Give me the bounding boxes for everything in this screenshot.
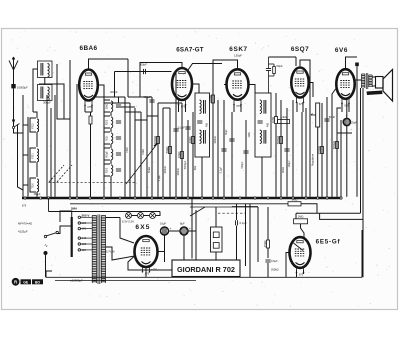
svg-text:6SA7-GT: 6SA7-GT (176, 47, 204, 54)
wire left bend (46, 271, 52, 277)
wire rail (305, 108, 307, 197)
wire 6v6 grid link (332, 88, 336, 103)
svg-text:125: 125 (82, 242, 87, 246)
svg-text:0,5µF: 0,5µF (271, 259, 278, 263)
svg-text:F515: F515 (33, 123, 35, 129)
svg-text:50kΩ: 50kΩ (148, 167, 151, 173)
pilot lamp LP1 (126, 213, 132, 219)
wire nameplate drop (191, 198, 193, 259)
svg-text:5000µF: 5000µF (184, 160, 187, 169)
wire 100pF line (115, 71, 172, 73)
wire top h2 (128, 96, 152, 98)
wire cathode to cap (346, 99, 348, 119)
svg-text:1MΩ: 1MΩ (298, 215, 304, 219)
wire V3 grid cap (213, 60, 238, 93)
resistor R osc (153, 135, 160, 144)
wire heaters V4 (296, 102, 298, 112)
power transformer T4 secondary (101, 216, 105, 284)
svg-text:50kΩ: 50kΩ (165, 146, 169, 154)
svg-text:675: 675 (87, 105, 92, 109)
subline B+ (70, 203, 288, 205)
wire 01 line (236, 204, 238, 220)
resistor R 1M eye (288, 198, 301, 206)
wire bottom heater rail (128, 256, 196, 270)
resistor R if (177, 151, 184, 159)
wire jog e (163, 107, 170, 109)
output transformer T3 primary (362, 74, 365, 88)
wire OT to speaker (372, 76, 376, 78)
wire rail (22, 95, 24, 197)
box pickup (211, 227, 223, 252)
svg-text:675: 675 (236, 104, 241, 108)
svg-text:∿: ∿ (44, 243, 48, 248)
voltage selector bar (71, 217, 73, 257)
svg-text:500pF: 500pF (241, 161, 244, 169)
wire rail (275, 93, 277, 117)
selector tap 110 (78, 249, 80, 251)
avc dashed line (218, 212, 246, 214)
tube V2 6SA7 (172, 68, 192, 109)
capacitor C2 100pF (144, 69, 146, 74)
selector tap 220 (78, 222, 80, 224)
antenna coil L2 in can (38, 85, 53, 101)
wire heaters V2 (178, 104, 180, 112)
svg-text:6SQ7: 6SQ7 (291, 46, 309, 53)
wire junction at L3 top (33, 112, 37, 118)
junction on bus x40.5 (39, 197, 41, 199)
svg-text:10kΩ: 10kΩ (177, 151, 181, 159)
electrolytic C filt2 8µF (180, 222, 191, 235)
junction on bus x70 (69, 197, 71, 199)
junction on bus x104 (103, 197, 105, 199)
maker logo wordmark (21, 279, 32, 284)
wire coil LM1 link (110, 112, 112, 116)
wire screen feed (39, 84, 64, 119)
wire rail (46, 95, 48, 197)
svg-text:160: 160 (82, 227, 87, 231)
wire right frame vert2 (362, 88, 364, 277)
svg-text:130pF: 130pF (234, 54, 242, 58)
tube V1 6BA6 (79, 70, 98, 110)
tube V4 6SQ7 (291, 68, 308, 107)
wire V2 plate (192, 84, 199, 93)
ground bus heavy line (22, 197, 342, 200)
wire jog b (116, 106, 135, 108)
svg-text:50kΩ: 50kΩ (107, 104, 109, 110)
band coil L4 with switch (30, 148, 39, 162)
svg-text:BO: BO (35, 280, 40, 284)
capacitor C mix (173, 126, 185, 132)
wire T1 bottom (201, 157, 203, 197)
svg-text:R: R (14, 280, 17, 285)
junction on bus x163 (162, 197, 164, 199)
svg-text:100kΩ: 100kΩ (214, 136, 217, 143)
wire frame step (320, 213, 363, 219)
electrolytic C cath 25µF (343, 114, 357, 125)
wire rail x246 (245, 120, 247, 197)
antenna coil L1 in can (38, 61, 53, 78)
wire mains to selector (57, 226, 71, 234)
wire rail x77 (76, 84, 78, 197)
wire rail (140, 112, 142, 197)
wire rail (187, 120, 189, 197)
wire rail (326, 97, 328, 197)
junction on bus x317.7 (317, 197, 319, 199)
wire rail (134, 108, 136, 197)
wire mid vert2 (257, 207, 259, 262)
bottom rail 2 (55, 280, 196, 282)
bottom rail 1 (46, 276, 362, 278)
svg-text:1MΩ: 1MΩ (292, 198, 298, 202)
wire rail (336, 108, 338, 197)
resistor R2 1M eye (294, 215, 308, 224)
wire V5 plate to OT (355, 79, 362, 81)
wire eye left (286, 253, 290, 278)
wire rail (162, 108, 164, 197)
svg-text:100kΩ: 100kΩ (164, 166, 167, 173)
wire heater leads (84, 105, 86, 112)
oscillator coil LM3 (104, 132, 113, 144)
svg-text:T516: T516 (33, 183, 35, 189)
capacitor C osc top (143, 95, 155, 102)
svg-text:6SK7: 6SK7 (229, 46, 247, 53)
wire subline3 (190, 206, 258, 208)
IF transformer T2 can (255, 93, 271, 157)
svg-text:F202: F202 (107, 119, 109, 125)
wire rail (309, 97, 311, 197)
junction on bus x240 (239, 197, 241, 199)
junction on bus x268 (267, 197, 269, 199)
wire lamp feed (156, 212, 161, 216)
wire rail (129, 103, 131, 197)
wire L5 tap (23, 184, 28, 186)
volume potentiometer P1 (311, 103, 320, 127)
wire rail right bend (361, 230, 363, 277)
svg-text:100kΩ: 100kΩ (177, 168, 180, 175)
wire V2 grid cap (140, 63, 182, 98)
svg-text:1MΩ: 1MΩ (271, 116, 275, 123)
resistor R det (271, 116, 278, 123)
padder capacitor CM4 (116, 153, 121, 155)
svg-text:GE: GE (23, 280, 29, 284)
wire jog f (135, 119, 147, 121)
svg-text:6X5: 6X5 (135, 224, 150, 231)
frame around cathode cap (337, 108, 352, 133)
wire rail (181, 103, 183, 197)
wire rail (103, 97, 105, 197)
wire jog c (125, 111, 141, 113)
resistor R diode (276, 135, 283, 144)
pilot lamp LP3 (150, 213, 156, 219)
padder capacitor CM2 (116, 121, 121, 123)
junction on bus x77 (76, 197, 78, 199)
junction on bus x176 (175, 197, 177, 199)
svg-text:10kΩ: 10kΩ (142, 149, 145, 155)
svg-text:F201: F201 (33, 153, 35, 159)
wire mid vert (249, 204, 251, 277)
padder capacitor CM5 (116, 169, 121, 171)
wire diag feed (190, 207, 205, 216)
speaker LS1 coil body (376, 77, 384, 89)
svg-text:F204: F204 (126, 147, 129, 153)
junction on bus x224 (223, 197, 225, 199)
svg-text:500kΩ: 500kΩ (276, 135, 280, 144)
wire can to ground rail (33, 69, 38, 112)
wire mid vert3 (245, 204, 247, 266)
selector tap 160 (78, 227, 80, 229)
svg-text:675: 675 (22, 203, 27, 207)
wire jog a (104, 102, 130, 104)
resistor R 15k (263, 240, 270, 248)
wire 6X5 bottom (145, 267, 147, 277)
band coil L5 with switch (30, 178, 39, 192)
junction on bus x120 (119, 197, 121, 199)
tuning gang link dashed (49, 181, 136, 183)
svg-text:0,1µF: 0,1µF (220, 166, 223, 173)
capacitor C tone dark (355, 63, 359, 67)
wire rail (301, 112, 303, 197)
variable capacitor CV1 rotor arrow (49, 165, 64, 182)
resistor R det parallel (273, 67, 276, 74)
svg-text:2MA: 2MA (71, 207, 78, 211)
wire rail (169, 108, 171, 197)
wire mains top line (49, 211, 161, 213)
wire rail (27, 117, 29, 197)
IF transformer T1 can (195, 93, 210, 157)
svg-text:300µF: 300µF (34, 193, 41, 196)
svg-text:4,3kΩ: 4,3kΩ (280, 115, 287, 119)
junction on bus x25 (24, 197, 26, 199)
maker logo roundel (12, 278, 20, 286)
wire pickup top (215, 207, 217, 227)
tube V3 6SK7 (227, 69, 249, 108)
wire rail (157, 103, 159, 197)
scan speckle texture (3, 31, 395, 307)
wire jog g (147, 115, 158, 117)
svg-text:50Ω: 50Ω (107, 136, 109, 141)
svg-text:≡47Ω: ≡47Ω (151, 269, 157, 272)
svg-text:500kΩ: 500kΩ (332, 140, 336, 149)
capacitor C x1 (229, 139, 234, 141)
svg-text:10000µF: 10000µF (17, 86, 28, 90)
junction on bus x327 (326, 197, 328, 199)
capacitor C det2 (284, 149, 289, 151)
svg-text:100µF: 100µF (288, 160, 291, 167)
svg-text:GIORDANI R 702: GIORDANI R 702 (177, 265, 235, 274)
wire switch to coil L1 (14, 129, 24, 133)
svg-text:200kΩ: 200kΩ (271, 268, 279, 272)
junction on bus x281 (280, 197, 282, 199)
wire T2 bottom (261, 157, 263, 197)
svg-text:−: − (351, 128, 353, 132)
wire coil bank bus (22, 132, 24, 134)
capacitor C avc (221, 149, 226, 151)
wire coil LM3 link (110, 144, 112, 148)
wire heaters V5 (341, 102, 343, 112)
wire V3 plate (249, 85, 256, 94)
antenna A1 (9, 57, 18, 70)
wire rail (192, 112, 194, 197)
junction on bus x152 (151, 197, 153, 199)
wire cap to bus (346, 126, 348, 197)
oscillator coil LM2 (104, 116, 113, 128)
svg-text:≡10000µF: ≡10000µF (70, 278, 83, 282)
oscillator coil LM4 (104, 148, 113, 160)
wire V1 plate lead (98, 85, 104, 97)
wire rail (124, 97, 126, 197)
wire mains down (45, 255, 47, 277)
svg-text:Regolatore: Regolatore (311, 153, 314, 166)
svg-text:+: + (170, 227, 172, 231)
capacitor C det 50pF (266, 69, 271, 71)
speaker LS1 magnet bar (367, 91, 383, 96)
wire L1-L2 link (44, 78, 46, 85)
choke between caps (169, 230, 181, 232)
junction on bus x90 (89, 197, 91, 199)
svg-text:15kΩ: 15kΩ (263, 240, 267, 248)
svg-text:MF470=AE: MF470=AE (18, 222, 32, 226)
wire grid return (57, 64, 70, 119)
wire 15k (267, 207, 269, 240)
wire HT top lead (106, 217, 120, 219)
variable capacitor CV2 rotor (126, 144, 157, 184)
wire L3 tap (23, 124, 28, 126)
wire rail (286, 108, 288, 197)
wire antenna lead-in (13, 70, 15, 84)
tube V5 6V6 (336, 69, 354, 107)
wire V5 top (346, 57, 358, 69)
electrolytic C filt1 16µF (160, 222, 172, 235)
wire eye target (301, 224, 305, 238)
wire rail (217, 100, 219, 197)
wire right frame vert (360, 88, 362, 213)
wire 6X5 cath out (158, 235, 165, 252)
wire eye grid lead (295, 213, 297, 219)
svg-text:6V6: 6V6 (335, 47, 348, 54)
junction on bus x341 (340, 197, 342, 199)
svg-text:50µF: 50µF (277, 64, 284, 68)
wire filt down (195, 231, 197, 270)
wire mains drop (48, 198, 50, 212)
wire 6X5 heater (106, 247, 135, 260)
wire coil LM2 link (110, 128, 112, 132)
wire coil LM5 link (110, 176, 112, 197)
wire 05 down (267, 263, 269, 277)
wire rail (54, 95, 56, 197)
svg-text:8µF: 8µF (180, 222, 185, 226)
tube V7 6X5 rectifier (135, 236, 158, 276)
subline short (232, 206, 258, 208)
wire pot bottom (317, 127, 319, 197)
svg-text:220: 220 (82, 221, 87, 225)
power transformer T4 primary (92, 216, 96, 284)
junction on bus x306 (305, 197, 307, 199)
capacitor C x2 (243, 151, 248, 153)
wire V3 screen (224, 84, 227, 86)
wire rail (175, 73, 177, 197)
wire rail (292, 100, 294, 197)
padder capacitor CM1 (116, 105, 121, 107)
junction on bus x48.5 (47, 197, 49, 199)
wire rail (223, 100, 225, 197)
wire rail (151, 97, 153, 197)
svg-text:5,7V,5A: 5,7V,5A (106, 251, 115, 254)
svg-text:500kΩ: 500kΩ (208, 94, 212, 103)
svg-text:110: 110 (82, 248, 87, 252)
resistor R avc (208, 94, 215, 103)
wire V4 grid cap (300, 60, 310, 97)
svg-text:260 V: 260 V (82, 213, 90, 217)
wire jog d (158, 102, 182, 104)
wire coil LM4 link (110, 160, 112, 164)
svg-text:0,1µF: 0,1µF (158, 174, 161, 181)
svg-text:16µF: 16µF (160, 222, 167, 226)
wire antenna to band switch (13, 88, 15, 126)
wire eye grid (301, 204, 317, 213)
resistor R vol (317, 145, 324, 154)
resistor R heater (89, 116, 92, 124)
svg-text:300Ω: 300Ω (282, 167, 285, 173)
wire cathode to bus (69, 60, 71, 197)
arrow on antenna lead (12, 120, 15, 125)
junction on bus x255 (254, 197, 256, 199)
padder capacitor CM3 (116, 137, 121, 139)
wire rail (212, 93, 214, 197)
svg-text:250kΩ: 250kΩ (317, 145, 321, 154)
svg-text:5kΩ: 5kΩ (194, 166, 197, 171)
svg-text:675: 675 (181, 105, 186, 109)
svg-text:100kΩ: 100kΩ (153, 135, 157, 144)
wire filt out (188, 210, 196, 231)
wire rail (146, 97, 148, 197)
wire top h1 (95, 96, 125, 98)
wire rail (321, 103, 323, 197)
capacitor C sg (185, 127, 190, 129)
svg-text:142: 142 (82, 236, 87, 240)
pilot lamp LP2 (138, 213, 144, 219)
svg-text:F203: F203 (107, 167, 109, 173)
eye target diagonal (294, 243, 304, 251)
wire L4 tap (23, 154, 28, 156)
wire rail (340, 120, 342, 197)
wire det parallel (273, 64, 275, 67)
resistor R g6v6 (332, 140, 339, 149)
svg-text:4125µF: 4125µF (18, 230, 28, 234)
wire lamp link (132, 215, 138, 217)
wire eye feed (296, 212, 361, 214)
svg-text:465: 465 (206, 122, 209, 127)
svg-text:50pF: 50pF (225, 129, 228, 135)
svg-text:25µF: 25µF (351, 121, 357, 125)
mains plug dot (44, 251, 48, 255)
junction on bus x135 (134, 197, 136, 199)
output transformer T3 secondary (369, 75, 372, 87)
wire rail (331, 103, 333, 197)
resistor R mix (165, 146, 172, 154)
wire antenna rail bend (18, 125, 24, 190)
selector tap 125 (78, 243, 80, 245)
band coil L3 with switch (30, 118, 39, 132)
power transformer T4 core (97, 215, 99, 285)
svg-text:675: 675 (299, 272, 304, 276)
output transformer T3 core (365, 73, 367, 89)
svg-text:1MΩ: 1MΩ (248, 132, 251, 137)
wire tone cap drop (356, 66, 358, 197)
wire HT to 6X5 plates (120, 218, 134, 244)
wire cap grounds (164, 235, 166, 262)
oscillator coil LM5 (104, 164, 113, 176)
wire V4 plate (309, 83, 313, 98)
